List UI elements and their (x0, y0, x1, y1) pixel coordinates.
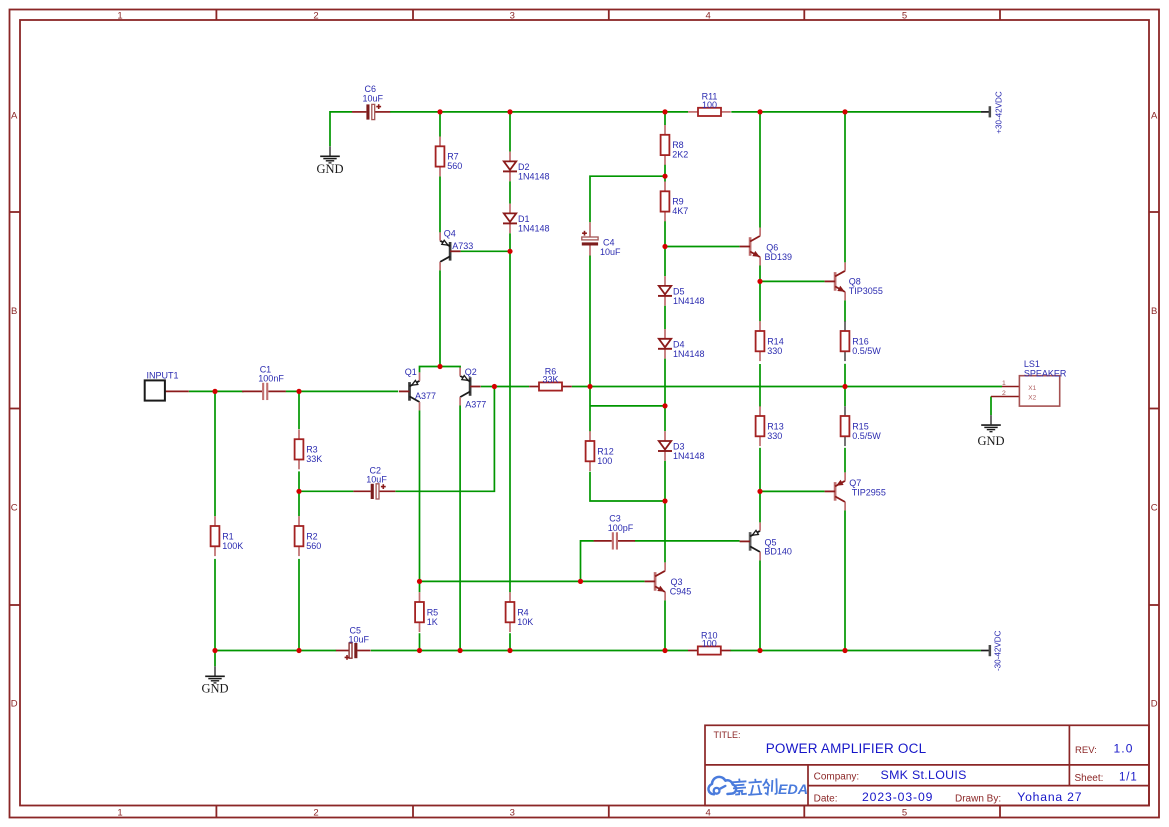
junction (662, 403, 667, 408)
svg-text:33K: 33K (306, 454, 322, 464)
svg-text:100K: 100K (222, 541, 243, 551)
svg-text:TITLE:: TITLE: (714, 730, 741, 740)
wire (298, 491, 300, 516)
resistor R8 (661, 125, 689, 165)
svg-text:R2: R2 (306, 531, 318, 541)
svg-text:BD140: BD140 (764, 547, 792, 557)
svg-text:R1: R1 (222, 531, 234, 541)
capacitor C6 (352, 84, 390, 119)
svg-text:C3: C3 (609, 514, 621, 524)
junction (757, 489, 762, 494)
svg-text:3: 3 (510, 10, 515, 21)
svg-text:2K2: 2K2 (672, 150, 688, 160)
wire (214, 391, 216, 516)
junction (662, 109, 667, 114)
capacitor C5 (336, 625, 371, 660)
wire (481, 386, 495, 388)
resistor R13 (756, 406, 784, 446)
junction (662, 498, 667, 503)
svg-text:4: 4 (706, 808, 711, 819)
wire (990, 397, 992, 416)
junction (578, 579, 583, 584)
svg-text:Q3: Q3 (671, 577, 683, 587)
svg-text:R16: R16 (852, 336, 869, 346)
svg-text:SMK St.LOUIS: SMK St.LOUIS (881, 768, 967, 782)
svg-text:10uF: 10uF (363, 94, 384, 104)
svg-text:0.5/5W: 0.5/5W (852, 346, 881, 356)
svg-text:Date:: Date: (814, 794, 838, 805)
ground (316, 146, 343, 176)
svg-text:1N4148: 1N4148 (518, 224, 550, 234)
svg-text:A377: A377 (415, 391, 436, 401)
capacitor C2 (353, 465, 395, 499)
svg-text:Company:: Company: (814, 771, 860, 782)
diode D4 (658, 329, 705, 359)
wire (759, 266, 761, 282)
svg-text:Q2: Q2 (465, 367, 477, 377)
junction (492, 384, 497, 389)
wire (419, 581, 421, 592)
resistor R7 (436, 137, 463, 177)
svg-text:A733: A733 (452, 241, 473, 251)
resistor R4 (506, 592, 534, 632)
resistor R1 (211, 516, 244, 556)
svg-text:TIP2955: TIP2955 (852, 487, 886, 497)
svg-text:100: 100 (597, 456, 612, 466)
capacitor C3 (594, 514, 635, 550)
svg-text:A: A (11, 111, 18, 122)
wire (330, 112, 352, 146)
transistor Q4 (440, 229, 473, 271)
svg-text:1: 1 (117, 10, 122, 21)
wire (494, 386, 529, 388)
diode D1 (503, 204, 550, 234)
svg-text:C: C (1151, 503, 1158, 514)
svg-text:2: 2 (313, 808, 318, 819)
svg-text:R8: R8 (672, 140, 684, 150)
wire (759, 364, 761, 407)
wire (635, 540, 740, 542)
svg-text:D: D (1151, 699, 1158, 710)
junction (842, 384, 847, 389)
svg-text:100pF: 100pF (608, 523, 634, 533)
wire (420, 367, 441, 373)
capacitor C4 (582, 222, 621, 257)
wire (395, 387, 494, 492)
resistor R9 (661, 182, 689, 222)
resistor R2 (295, 516, 322, 556)
junction (458, 648, 463, 653)
diode D3 (658, 431, 705, 461)
svg-text:SPEAKER: SPEAKER (1024, 369, 1067, 379)
svg-text:1N4148: 1N4148 (673, 349, 705, 359)
svg-text:D3: D3 (673, 442, 685, 452)
power flag +30-42VDC (981, 91, 1004, 134)
wire (299, 490, 353, 492)
junction (417, 579, 422, 584)
svg-text:Drawn By:: Drawn By: (955, 794, 1001, 805)
svg-text:330: 330 (767, 346, 782, 356)
junction (662, 174, 667, 179)
junction (212, 389, 217, 394)
transistor Q6 (740, 228, 792, 266)
svg-text:10K: 10K (517, 617, 533, 627)
svg-text:100nF: 100nF (258, 373, 284, 383)
wire (844, 300, 846, 322)
wire (214, 559, 216, 651)
resistor R3 (295, 429, 323, 469)
svg-text:GND: GND (316, 162, 343, 176)
svg-text:Sheet:: Sheet: (1075, 773, 1104, 784)
junction (507, 648, 512, 653)
svg-text:R5: R5 (427, 607, 439, 617)
wire (664, 306, 666, 329)
wire (590, 386, 845, 388)
wire (844, 112, 846, 263)
wire (390, 111, 688, 113)
wire (664, 247, 666, 277)
ground (977, 415, 1004, 448)
svg-text:+30-42VDC: +30-42VDC (995, 91, 1004, 134)
junction (757, 648, 762, 653)
wire (664, 461, 666, 563)
svg-text:R15: R15 (852, 421, 869, 431)
wire (509, 633, 511, 650)
ground (201, 666, 228, 695)
junction (417, 648, 422, 653)
svg-text:A: A (1151, 111, 1158, 122)
svg-text:-30-42VDC: -30-42VDC (994, 630, 1003, 671)
connector INPUT1 (145, 371, 189, 401)
wire (759, 281, 761, 321)
wire (664, 164, 666, 181)
wire (664, 112, 666, 125)
svg-text:A377: A377 (465, 400, 486, 410)
junction (296, 489, 301, 494)
wire (664, 221, 666, 247)
wire (214, 651, 216, 667)
resistor R14 (756, 321, 784, 361)
svg-text:10uF: 10uF (349, 634, 370, 644)
transistor Q5 (740, 522, 792, 560)
transistor Q1 (399, 367, 436, 411)
svg-text:B: B (11, 306, 17, 317)
svg-text:R9: R9 (672, 197, 684, 207)
diode D2 (503, 152, 550, 182)
logo JLCEDA (708, 777, 808, 798)
junction (662, 244, 667, 249)
svg-text:100: 100 (702, 100, 717, 110)
wire (581, 541, 594, 582)
svg-text:10uF: 10uF (366, 474, 387, 484)
wire (590, 176, 665, 222)
svg-text:1N4148: 1N4148 (673, 296, 705, 306)
svg-text:2: 2 (313, 10, 318, 21)
wire (440, 367, 460, 368)
wire (759, 560, 761, 650)
wire (844, 510, 846, 650)
svg-text:1K: 1K (427, 617, 438, 627)
resistor R15 (841, 406, 882, 446)
power flag -30-42VDC (981, 630, 1003, 671)
svg-text:D5: D5 (673, 287, 685, 297)
transistor Q7 (825, 472, 886, 510)
svg-text:TIP3055: TIP3055 (849, 286, 883, 296)
svg-text:D2: D2 (518, 162, 530, 172)
junction (842, 648, 847, 653)
wire (664, 600, 666, 650)
svg-text:4K7: 4K7 (672, 206, 688, 216)
wire (590, 472, 665, 501)
svg-text:560: 560 (306, 541, 321, 551)
wire (509, 112, 511, 152)
wire (664, 359, 666, 432)
svg-text:GND: GND (201, 682, 228, 696)
junction (437, 109, 442, 114)
svg-text:BD139: BD139 (765, 252, 793, 262)
svg-text:1: 1 (1002, 380, 1006, 387)
connector LS1 SPEAKER (991, 359, 1067, 406)
wire (730, 650, 981, 652)
junction (587, 384, 592, 389)
wire (665, 246, 740, 248)
svg-text:GND: GND (977, 434, 1004, 448)
wire (509, 233, 511, 592)
svg-text:5: 5 (902, 10, 907, 21)
wire (844, 387, 846, 407)
diode D5 (658, 276, 705, 306)
wire (439, 270, 441, 366)
transistor Q3 (645, 562, 692, 600)
wire (589, 387, 591, 432)
wire (589, 255, 591, 386)
junction (842, 109, 847, 114)
wire (759, 112, 761, 228)
svg-text:R13: R13 (767, 421, 784, 431)
svg-text:1: 1 (117, 808, 122, 819)
svg-text:R7: R7 (447, 152, 459, 162)
svg-text:D4: D4 (673, 339, 685, 349)
svg-text:R3: R3 (306, 445, 318, 455)
junction (507, 109, 512, 114)
wire (189, 390, 244, 392)
svg-text:560: 560 (447, 161, 462, 171)
svg-text:Q6: Q6 (766, 242, 778, 252)
junction (212, 648, 217, 653)
svg-text:X2: X2 (1028, 394, 1036, 401)
wire (844, 448, 846, 473)
svg-text:R14: R14 (767, 336, 784, 346)
wire (215, 650, 336, 652)
wire (461, 250, 510, 252)
svg-text:4: 4 (706, 10, 711, 21)
svg-text:2: 2 (1002, 390, 1006, 397)
svg-text:Q4: Q4 (444, 229, 456, 239)
resistor R5 (415, 592, 438, 632)
svg-text:R4: R4 (517, 607, 529, 617)
svg-text:C4: C4 (603, 238, 615, 248)
svg-text:Yohana 27: Yohana 27 (1017, 790, 1082, 804)
resistor R12 (586, 431, 614, 471)
resistor R16 (841, 321, 882, 361)
wire (759, 448, 761, 523)
wire (760, 490, 825, 492)
junction (437, 364, 442, 369)
wire (845, 386, 1002, 388)
junction (757, 109, 762, 114)
svg-text:1N4148: 1N4148 (673, 451, 705, 461)
resistor R6 (529, 366, 572, 390)
svg-text:0.5/5W: 0.5/5W (852, 431, 881, 441)
wire (371, 650, 688, 652)
svg-text:C945: C945 (670, 587, 692, 597)
junction (296, 648, 301, 653)
svg-text:Q8: Q8 (849, 276, 861, 286)
wire (760, 280, 825, 282)
junction (662, 648, 667, 653)
wire (298, 471, 300, 491)
resistor R11 (688, 92, 731, 116)
capacitor C1 (242, 364, 286, 400)
svg-text:1/1: 1/1 (1119, 771, 1138, 783)
svg-text:5: 5 (902, 808, 907, 819)
svg-text:D: D (11, 699, 18, 710)
wire (572, 386, 590, 388)
resistor R10 (688, 630, 731, 654)
title block (705, 725, 1149, 805)
wire (439, 176, 441, 232)
wire (590, 405, 665, 407)
svg-text:1.0: 1.0 (1114, 742, 1134, 756)
svg-text:D1: D1 (518, 214, 530, 224)
wire (439, 112, 441, 137)
wire (509, 181, 511, 203)
wire (419, 410, 421, 581)
svg-text:X1: X1 (1028, 385, 1036, 392)
junction (296, 389, 301, 394)
wire (298, 559, 300, 651)
svg-text:INPUT1: INPUT1 (147, 371, 179, 381)
svg-text:330: 330 (767, 431, 782, 441)
svg-text:10uF: 10uF (600, 247, 621, 257)
wire (459, 406, 461, 651)
wire (298, 391, 300, 429)
wire (419, 633, 421, 650)
svg-text:1N4148: 1N4148 (518, 172, 550, 182)
svg-text:EDA: EDA (778, 782, 808, 798)
svg-text:POWER AMPLIFIER OCL: POWER AMPLIFIER OCL (766, 741, 927, 756)
svg-text:33K: 33K (542, 375, 558, 385)
svg-text:100: 100 (702, 639, 717, 649)
transistor Q2 (460, 367, 486, 410)
svg-text:B: B (1151, 306, 1157, 317)
wire (844, 364, 846, 387)
svg-text:R12: R12 (597, 446, 614, 456)
junction (757, 279, 762, 284)
svg-text:3: 3 (510, 808, 515, 819)
wire (420, 580, 645, 582)
wire (731, 111, 981, 113)
svg-text:C: C (11, 503, 18, 514)
wire (286, 390, 399, 392)
svg-text:REV:: REV: (1075, 745, 1097, 756)
svg-text:2023-03-09: 2023-03-09 (862, 790, 933, 804)
transistor Q8 (825, 262, 883, 300)
svg-text:Q1: Q1 (405, 367, 417, 377)
junction (507, 249, 512, 254)
